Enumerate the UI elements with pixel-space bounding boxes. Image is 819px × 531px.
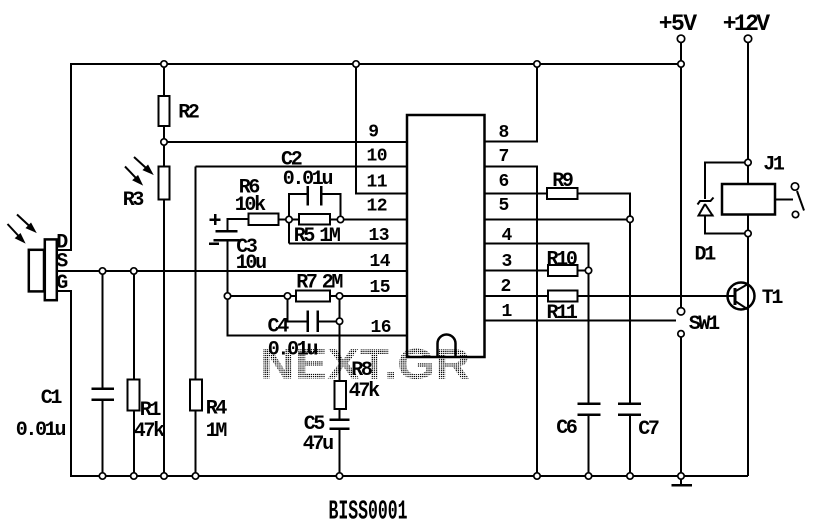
svg-text:R5: R5 xyxy=(294,225,315,248)
wire pin7 down to ground rail xyxy=(485,167,538,477)
svg-text:13: 13 xyxy=(369,226,390,246)
wire R7 leads xyxy=(288,295,340,297)
resistor R7 xyxy=(296,291,330,302)
svg-text:0.01u: 0.01u xyxy=(283,168,333,191)
resistor R8 xyxy=(335,381,347,409)
wire R9 to pin5 node column xyxy=(578,194,631,220)
svg-text:1: 1 xyxy=(502,302,513,322)
resistor R10 xyxy=(548,265,578,276)
svg-text:6: 6 xyxy=(499,172,509,192)
node R2/R3 junction xyxy=(161,139,167,145)
node top rail at +5V xyxy=(678,61,684,67)
svg-text:16: 16 xyxy=(371,318,392,338)
wire SW1 bottom to ground xyxy=(680,338,682,477)
terminal +5V xyxy=(677,35,684,42)
wire C4 right lead xyxy=(318,320,340,322)
svg-text:R4: R4 xyxy=(206,398,228,421)
node rail C5 xyxy=(336,473,342,479)
resistor R1 xyxy=(128,380,140,411)
wire sensor S line to pin14 xyxy=(57,270,407,272)
svg-text:3: 3 xyxy=(502,252,512,272)
wire pin1 to SW1 xyxy=(485,320,677,322)
wire +12V terminal down to J1 node xyxy=(747,43,749,163)
svg-text:0.01u: 0.01u xyxy=(16,419,66,442)
wire R4 bottom to rail xyxy=(195,411,197,477)
wire pin5 node down to C7 xyxy=(629,219,631,403)
capacitor C3 minus plate xyxy=(214,239,240,242)
wire D1 bottom branch xyxy=(705,216,748,234)
wire R6 right lead to node xyxy=(279,219,290,221)
svg-text:14: 14 xyxy=(370,252,391,272)
op-amp IC BISS0001 box xyxy=(407,115,485,357)
wire +5V down to SW1 top contact xyxy=(680,64,682,308)
wire pin12 from R5 right node xyxy=(341,219,408,221)
svg-text:R9: R9 xyxy=(552,170,573,193)
svg-text:11: 11 xyxy=(367,173,388,193)
resistor R5 xyxy=(299,214,330,225)
node rail R3 xyxy=(161,473,167,479)
resistor R11 xyxy=(548,291,578,302)
wire R7 right node down to R8 xyxy=(339,296,341,381)
node top rail at R2 xyxy=(161,61,167,67)
ground stub xyxy=(680,476,682,485)
resistor R6 xyxy=(249,214,279,226)
node top rail at pin8 drop xyxy=(534,61,540,67)
svg-text:R3: R3 xyxy=(123,189,144,212)
sensor PIR can xyxy=(29,250,44,292)
svg-text:J1: J1 xyxy=(763,154,785,177)
svg-text:8: 8 xyxy=(499,123,509,143)
wire pin2 through R11 to T1 base xyxy=(485,295,736,297)
relay contact top xyxy=(791,183,798,190)
svg-text:9: 9 xyxy=(368,123,378,143)
node rail ground xyxy=(678,473,684,479)
capacitor C7 xyxy=(618,404,641,415)
wire R1 bottom to rail xyxy=(133,411,135,477)
node rail C1 xyxy=(99,473,105,479)
node rail C6 xyxy=(585,473,591,479)
svg-text:R11: R11 xyxy=(547,302,578,325)
wire top rail xyxy=(71,63,681,65)
svg-text:R8: R8 xyxy=(351,359,372,382)
node rail pin7 xyxy=(534,473,540,479)
node R7 right xyxy=(336,293,342,299)
svg-text:2: 2 xyxy=(501,277,511,297)
svg-text:5: 5 xyxy=(499,196,509,216)
capacitor C4 xyxy=(308,311,318,333)
wire J1 node through relay xyxy=(747,163,749,185)
svg-text:4: 4 xyxy=(502,226,513,246)
wire +5V terminal xyxy=(680,43,682,65)
capacitor C1 xyxy=(92,389,115,400)
resistor R4 xyxy=(190,380,202,411)
svg-text:12: 12 xyxy=(367,197,388,217)
node rail C7 xyxy=(627,473,633,479)
ground bar xyxy=(672,484,693,487)
wire C3 bottom lead down xyxy=(227,240,229,296)
svg-text:10: 10 xyxy=(367,147,388,167)
svg-text:R7: R7 xyxy=(296,272,317,295)
wire R5 leads xyxy=(289,219,341,221)
wire pin8 up to +5V rail xyxy=(485,64,538,142)
node R5/C2 right xyxy=(337,216,343,222)
svg-text:+12V: +12V xyxy=(723,11,771,37)
wire relay contact lead xyxy=(775,199,793,201)
wire C3 top lead to R6 xyxy=(228,219,249,231)
node R7 left xyxy=(284,293,290,299)
wire R1 column xyxy=(133,271,135,380)
diode D1 zener xyxy=(698,198,714,216)
wire C3 node down to pin16 xyxy=(228,296,408,336)
wire C6 to rail xyxy=(588,415,590,477)
svg-text:7: 7 xyxy=(499,147,509,167)
C3 minus sign xyxy=(209,242,219,245)
svg-text:T1: T1 xyxy=(762,287,784,310)
svg-text:SW1: SW1 xyxy=(689,313,720,336)
capacitor C3 plus plate xyxy=(216,230,238,233)
relay J1 coil box xyxy=(722,184,775,215)
node R10 right xyxy=(585,267,591,273)
wire bottom rail xyxy=(70,475,748,477)
wire pin3 to R10 xyxy=(485,270,548,272)
wire +5V branch down to pin11 xyxy=(356,64,407,194)
relay contact bottom xyxy=(792,211,798,217)
resistor R9 xyxy=(547,188,578,199)
svg-text:1M: 1M xyxy=(319,225,341,248)
svg-text:BISS0001: BISS0001 xyxy=(329,498,408,528)
resistor R3 xyxy=(159,167,170,200)
wire left rail lower xyxy=(57,291,71,476)
node C4 right xyxy=(336,318,342,324)
C3 plus sign xyxy=(210,214,221,225)
svg-text:15: 15 xyxy=(370,278,391,298)
capacitor C5 xyxy=(330,420,350,429)
relay contact lever xyxy=(797,191,804,211)
wire C1 column xyxy=(102,271,104,389)
wire C7 to rail xyxy=(629,415,631,477)
node top rail at pin11 drop xyxy=(353,61,359,67)
svg-text:C7: C7 xyxy=(638,418,659,441)
node R6/R5/C2 xyxy=(286,216,292,222)
svg-text:0.01u: 0.01u xyxy=(268,339,318,362)
node rail R4 xyxy=(192,473,198,479)
wire pin4 over to R10 right node xyxy=(485,244,589,271)
wire R4 column down xyxy=(195,167,197,380)
wire C1 bottom to rail xyxy=(102,400,104,477)
wire C2 left loop xyxy=(289,194,308,244)
wire C4 left lead xyxy=(288,296,308,321)
wire R10 node down to C6 xyxy=(588,271,590,404)
switch SW1 bottom contact xyxy=(678,331,684,337)
wire pin13 xyxy=(289,243,407,245)
svg-text:R2: R2 xyxy=(178,102,199,125)
svg-text:R1: R1 xyxy=(140,399,162,422)
node J1 top xyxy=(745,159,751,165)
wire pin6 to R9 xyxy=(485,193,547,195)
wire R2 column from top rail xyxy=(163,64,165,96)
svg-text:47k: 47k xyxy=(134,420,165,443)
svg-text:C6: C6 xyxy=(556,417,577,440)
svg-text:1M: 1M xyxy=(206,420,228,443)
node S line C1 xyxy=(99,268,105,274)
wire pin5 xyxy=(485,218,631,220)
switch SW1 top contact xyxy=(677,308,684,315)
wire C3 node to R7 left node xyxy=(228,295,288,297)
wire C2 right loop xyxy=(321,194,340,220)
wire R8 to C5 xyxy=(339,409,341,420)
node rail R1 xyxy=(131,473,137,479)
wire D1 top branch xyxy=(705,163,748,200)
wire relay bottom to D1 node and T1 xyxy=(747,215,749,477)
wire pin10 to R4 column xyxy=(196,166,408,168)
svg-text:C4: C4 xyxy=(268,316,290,339)
svg-text:+5V: +5V xyxy=(659,11,698,37)
transistor T1 xyxy=(728,283,755,310)
wire R10 right lead xyxy=(578,270,589,272)
terminal +12V xyxy=(744,35,751,42)
wire pin9 from R2/R3 junction to IC xyxy=(164,141,407,143)
IC notch xyxy=(438,335,456,357)
node pin5/R9 xyxy=(627,216,633,222)
svg-text:47u: 47u xyxy=(303,433,333,456)
node D1 bottom xyxy=(745,230,751,236)
wire R3 down to bottom rail xyxy=(163,200,165,477)
resistor R2 xyxy=(159,96,170,126)
node C3/pin16 xyxy=(224,293,230,299)
wire C5 to rail xyxy=(339,429,341,477)
svg-text:R10: R10 xyxy=(547,249,577,272)
wire pin15 from R7 right node xyxy=(340,295,408,297)
wire R2 to junction xyxy=(163,126,165,167)
node S line R1 xyxy=(131,268,137,274)
wire left rail upper xyxy=(57,63,71,250)
sensor incident arrows xyxy=(8,215,35,242)
svg-text:47k: 47k xyxy=(349,380,380,403)
svg-text:2M: 2M xyxy=(322,272,344,295)
svg-text:10k: 10k xyxy=(235,194,266,217)
R3 photo arrows xyxy=(125,157,152,184)
svg-text:C1: C1 xyxy=(41,387,63,410)
svg-text:10u: 10u xyxy=(236,252,266,275)
sensor PIR body xyxy=(45,239,57,300)
capacitor C2 xyxy=(308,186,322,206)
svg-text:D1: D1 xyxy=(695,244,717,267)
capacitor C6 xyxy=(578,404,601,415)
